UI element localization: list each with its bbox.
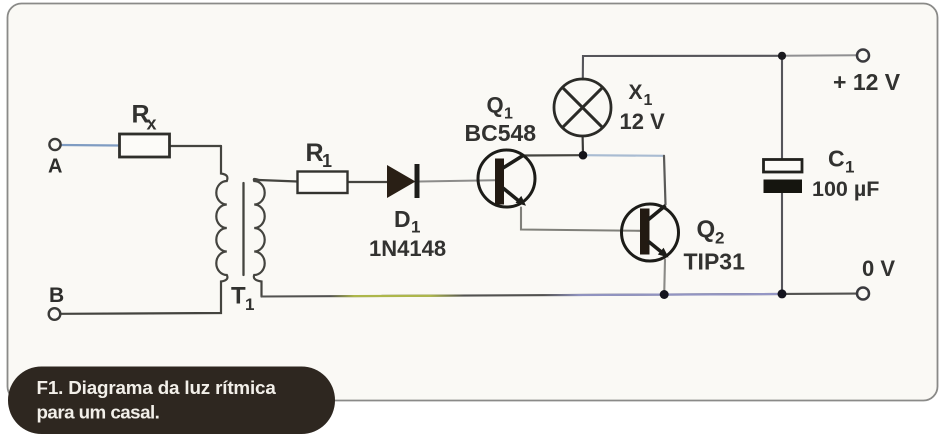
svg-text:Q: Q: [487, 93, 504, 118]
svg-text:x: x: [147, 114, 157, 134]
svg-text:X: X: [629, 81, 643, 104]
svg-text:F1. Diagrama da luz rítmica: F1. Diagrama da luz rítmica: [37, 377, 277, 398]
svg-text:1: 1: [644, 92, 653, 109]
svg-text:2: 2: [715, 229, 724, 248]
svg-text:para um casal.: para um casal.: [37, 402, 160, 423]
svg-text:1: 1: [322, 151, 332, 171]
svg-text:D: D: [394, 206, 411, 232]
svg-text:+ 12 V: + 12 V: [833, 69, 901, 95]
svg-text:100 µF: 100 µF: [812, 177, 879, 201]
svg-text:1N4148: 1N4148: [369, 236, 446, 261]
svg-text:T: T: [231, 283, 246, 310]
svg-text:A: A: [48, 156, 62, 178]
svg-text:Q: Q: [697, 216, 716, 243]
svg-text:B: B: [49, 284, 64, 307]
svg-text:12 V: 12 V: [620, 109, 666, 134]
svg-text:1: 1: [245, 295, 254, 314]
svg-text:TIP31: TIP31: [684, 249, 746, 275]
svg-text:C: C: [828, 146, 845, 172]
svg-text:0 V: 0 V: [862, 256, 895, 281]
svg-text:1: 1: [845, 158, 854, 177]
svg-text:1: 1: [411, 218, 420, 237]
svg-text:R: R: [306, 139, 324, 167]
svg-text:BC548: BC548: [465, 120, 537, 146]
